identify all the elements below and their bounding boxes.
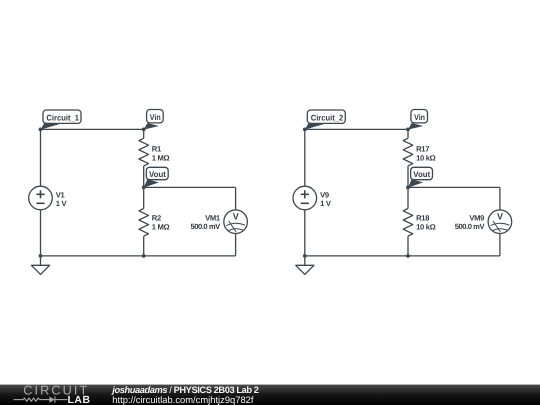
junction Vout: [406, 186, 410, 190]
voltage source V1: [29, 186, 68, 210]
svg-text:LAB: LAB: [68, 395, 91, 405]
wire Vout stub: [407, 187, 409, 208]
svg-text:V9: V9: [320, 190, 329, 199]
ground: [296, 256, 314, 275]
node Vin flag: [408, 110, 428, 130]
wire left rail lower: [304, 210, 306, 256]
svg-text:R2: R2: [152, 214, 161, 223]
wire R-top to Vout: [143, 166, 145, 188]
svg-text:Circuit_1: Circuit_1: [46, 113, 79, 122]
node Vout flag: [408, 167, 433, 187]
svg-text:R18: R18: [416, 214, 429, 223]
footer bar: [0, 384, 540, 405]
svg-text:500.0 mV: 500.0 mV: [190, 222, 221, 231]
node Vin flag: [144, 110, 164, 130]
ground: [31, 256, 49, 275]
svg-text:1 MΩ: 1 MΩ: [152, 223, 170, 232]
svg-text:10 kΩ: 10 kΩ: [416, 223, 436, 232]
wire Vout horizontal: [144, 186, 236, 188]
resistor R2: [139, 209, 170, 237]
svg-text:1 V: 1 V: [320, 199, 332, 208]
wire top rail Circuit_1: [41, 128, 144, 130]
resistor R17: [403, 138, 435, 166]
wire bottom rail: [305, 255, 500, 257]
junction Vout: [142, 186, 146, 190]
wire left rail lower: [40, 210, 42, 256]
svg-text:R1: R1: [152, 145, 162, 154]
svg-text:10 kΩ: 10 kΩ: [416, 153, 436, 162]
wire voltmeter bottom: [499, 234, 501, 256]
junction top-left: [39, 127, 43, 131]
wire left rail upper: [40, 129, 42, 186]
svg-text:Vin: Vin: [150, 113, 161, 122]
wire top rail Circuit_2: [305, 128, 408, 130]
voltmeter VM1: [190, 210, 247, 234]
wire R-bottom to rail: [407, 236, 409, 256]
node Vout flag: [144, 167, 169, 187]
node Circuit_1 flag: [41, 110, 82, 130]
wire Vout horizontal: [408, 186, 500, 188]
wire Vout stub: [143, 187, 145, 208]
voltmeter VM9: [455, 210, 512, 234]
junction bottom-left: [39, 254, 43, 258]
node Circuit_2 flag: [305, 110, 346, 130]
junction top-left: [303, 127, 307, 131]
resistor R1: [139, 138, 170, 166]
junction Vin: [406, 127, 410, 131]
svg-text:Circuit_2: Circuit_2: [311, 113, 344, 122]
wire bottom rail: [41, 255, 236, 257]
svg-text:V: V: [497, 212, 503, 222]
junction bottom-mid: [142, 254, 146, 258]
svg-text:500.0 mV: 500.0 mV: [455, 222, 486, 231]
CircuitLab logo schematic line: [14, 396, 68, 402]
junction bottom-left: [303, 254, 307, 258]
wire R-top to Vout: [407, 166, 409, 188]
junction Vin: [142, 127, 146, 131]
svg-text:http://circuitlab.com/cmjhtjz9: http://circuitlab.com/cmjhtjz9q782f: [112, 394, 254, 405]
wire R-bottom to rail: [143, 236, 145, 256]
wire voltmeter top: [499, 187, 501, 210]
svg-text:1 V: 1 V: [56, 199, 68, 208]
junction bottom-mid: [406, 254, 410, 258]
wire Vin stub: [407, 129, 409, 138]
wire voltmeter top: [235, 187, 237, 210]
wire voltmeter bottom: [235, 234, 237, 256]
svg-text:R17: R17: [416, 145, 429, 154]
svg-text:V: V: [233, 212, 239, 222]
svg-text:1 MΩ: 1 MΩ: [152, 153, 170, 162]
wire Vin stub: [143, 129, 145, 138]
wire left rail upper: [304, 129, 306, 186]
svg-text:Vin: Vin: [414, 113, 425, 122]
svg-text:Vout: Vout: [413, 170, 430, 179]
svg-text:Vout: Vout: [149, 170, 166, 179]
svg-text:V1: V1: [56, 190, 66, 199]
resistor R18: [403, 209, 435, 237]
voltage source V9: [293, 186, 332, 210]
